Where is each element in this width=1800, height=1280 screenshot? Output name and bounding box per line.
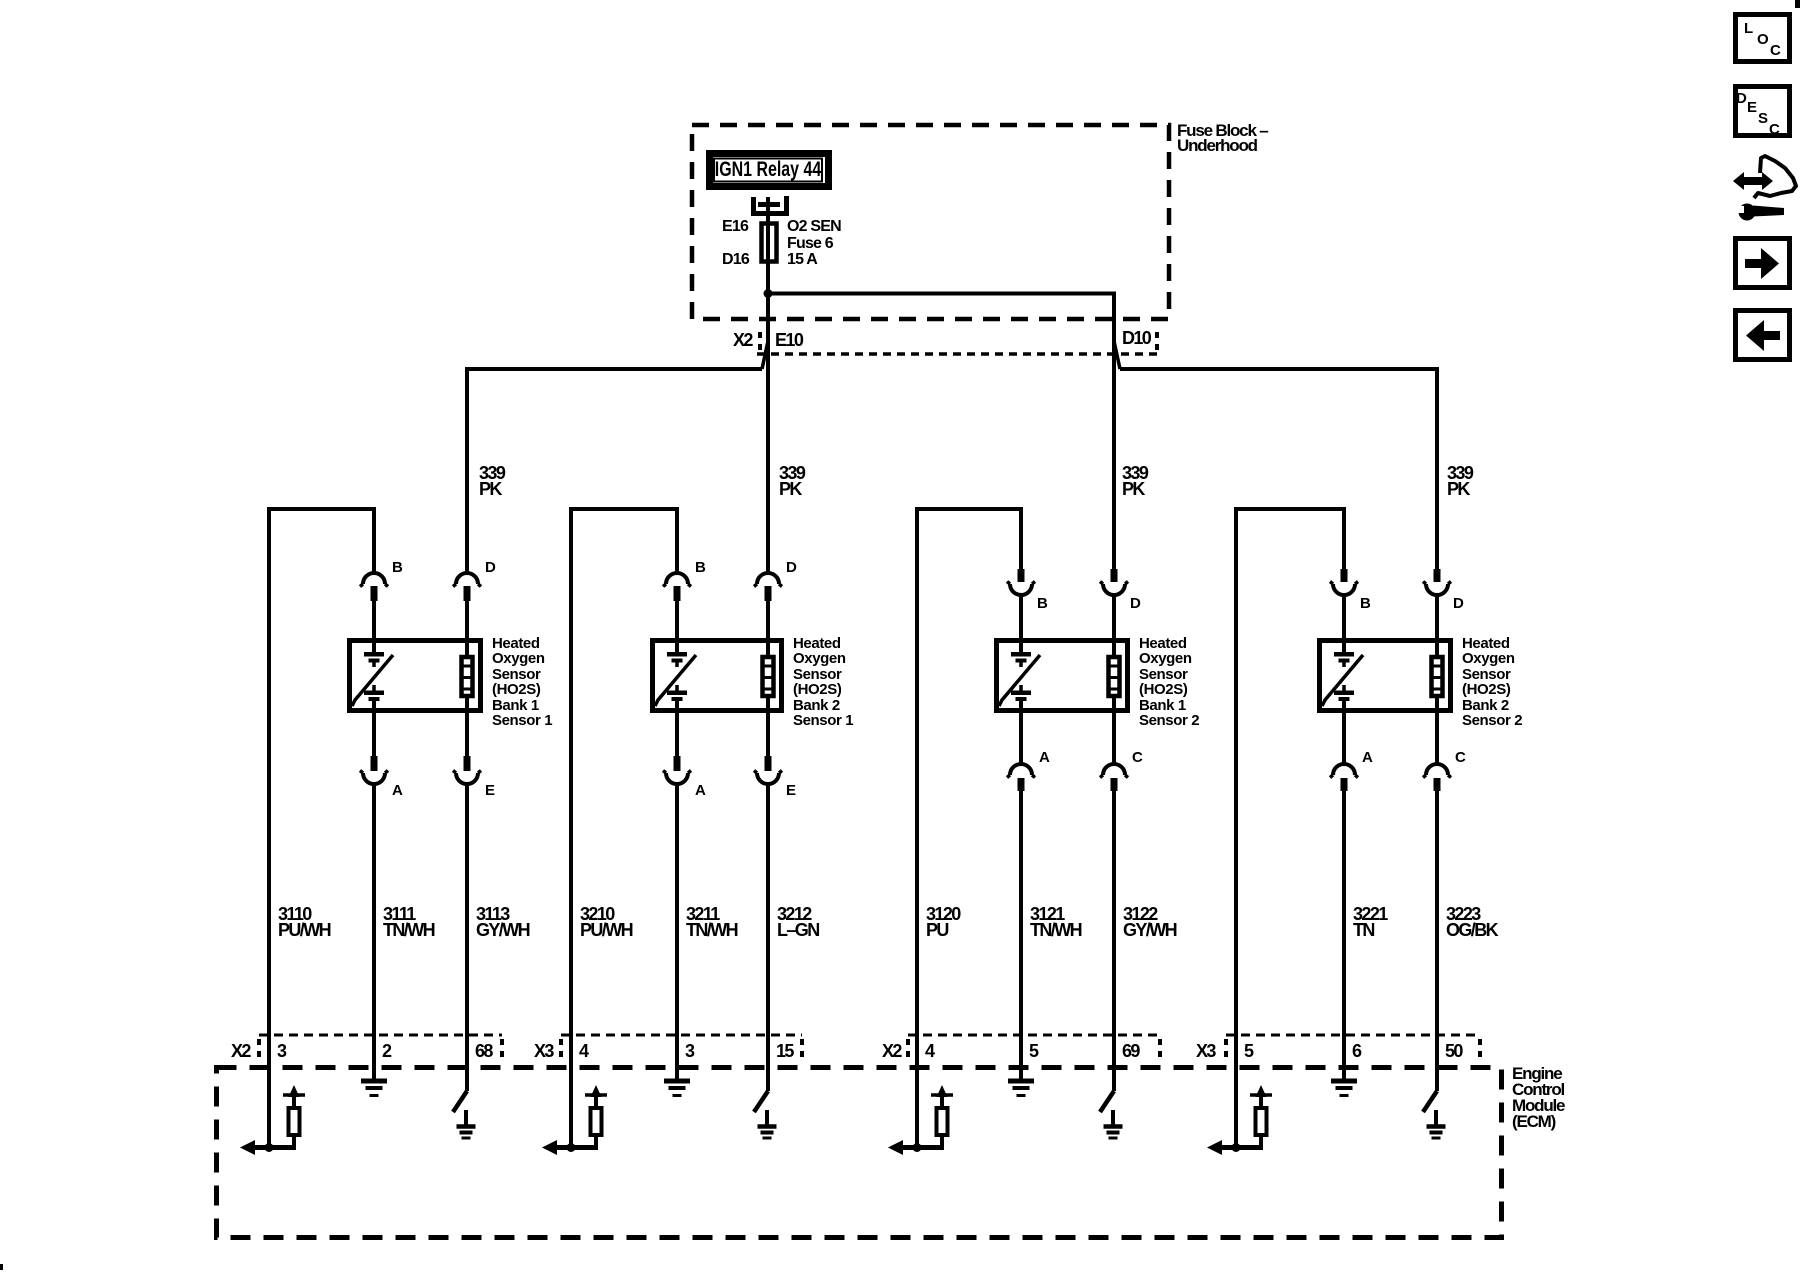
ECM connector separator left (group 1) (257, 1039, 261, 1057)
corner mark bottom-left (0, 1264, 3, 1270)
svg-text:B: B (1360, 595, 1371, 612)
wire 339 PK drop to HO2S B1S1 heater (465, 367, 469, 573)
ECM pull-up resistor (group 1) (289, 1108, 300, 1150)
ECM connector separator left (group 4) (1224, 1039, 1228, 1057)
wire label 3221 TN (1353, 904, 1388, 940)
connector pin B (sensor 4 top-left) (1330, 569, 1358, 595)
wire: ECM signal loop top (group 4) (1234, 507, 1346, 511)
ECM ground (heater driver, group 4) (1427, 1110, 1446, 1138)
svg-text:Fuse 6: Fuse 6 (787, 235, 834, 252)
ECM ground (signal low ref, group 3) (1008, 1081, 1034, 1096)
ECM connector label X3 (group 4) (1196, 1041, 1216, 1061)
svg-text:PK: PK (1447, 479, 1470, 499)
ECM heater driver switch (group 1) (453, 1091, 467, 1112)
wire label 339 PK (n4) (1447, 463, 1474, 499)
wire label 339 PK (n3) (1122, 463, 1149, 499)
wire label 339 PK (n2) (779, 463, 806, 499)
ECM connector label X2 (group 1) (231, 1041, 251, 1061)
svg-text:D16: D16 (722, 251, 750, 268)
icon box DESC (1736, 87, 1790, 139)
wire jog at E10 (762, 341, 768, 369)
wire: A to ECM ground (group 2) (675, 784, 679, 1079)
wire label 3210 PU/WH (580, 904, 633, 940)
wire label 3211 TN/WH (686, 904, 738, 940)
ECM pin number 50 (1445, 1041, 1463, 1061)
svg-text:Oxygen: Oxygen (1139, 650, 1192, 667)
ECM signal node junction (group 3) (913, 1143, 922, 1152)
wire: ECM signal loop top (group 2) (569, 507, 679, 511)
ECM pin number 5 (1244, 1041, 1254, 1061)
HO2S sensor box 3 (997, 641, 1128, 711)
svg-text:PK: PK (479, 479, 502, 499)
connector pin D (sensor 3 top-right) (1100, 569, 1128, 595)
ECM pull-up supply bar (group 1) (283, 1085, 305, 1108)
wire: A to ECM ground (group 3) (1019, 791, 1023, 1079)
wire: sensor box to connector A (1342, 713, 1346, 765)
pin letter E (786, 782, 796, 799)
wire: relay to fuse (766, 197, 770, 225)
svg-text:B: B (695, 559, 706, 576)
ECM ground (signal low ref, group 2) (664, 1081, 690, 1096)
wire: signal down to ECM pin (group 2) (569, 507, 573, 1148)
svg-text:D: D (485, 559, 496, 576)
svg-text:50: 50 (1445, 1041, 1463, 1061)
connector pin E (sensor 2 bottom-right) (754, 756, 782, 784)
connector pin B (sensor 3 top-left) (1007, 569, 1035, 595)
pin letter C (1132, 749, 1143, 766)
wire label 3121 TN/WH (1030, 904, 1082, 940)
wire: E to ECM driver (group 1) (465, 784, 469, 1091)
svg-text:(HO2S): (HO2S) (1139, 681, 1188, 698)
svg-text:Sensor 1: Sensor 1 (492, 712, 552, 729)
wire: through fuse to junction (766, 221, 770, 296)
ECM ground (heater driver, group 1) (457, 1110, 476, 1138)
HO2S sensor box 2 (653, 641, 782, 711)
svg-text:PK: PK (779, 479, 802, 499)
icon: wrench with arrows (1733, 156, 1796, 221)
ECM ground (signal low ref, group 1) (361, 1081, 387, 1096)
wire: ECM internal horizontal (group 2) (547, 1145, 596, 1150)
svg-text:A: A (1362, 749, 1373, 766)
ECM pull-up resistor (group 3) (937, 1108, 948, 1150)
svg-text:TN/WH: TN/WH (1030, 920, 1082, 940)
wire: drop to D10 connector (1112, 292, 1116, 574)
wire 339 PK drop to HO2S B2S2 heater (1435, 367, 1439, 569)
svg-text:D: D (1736, 90, 1747, 107)
svg-text:C: C (1770, 42, 1781, 59)
connector separator right (1155, 332, 1159, 350)
pin letter E (485, 782, 495, 799)
pin letter B (695, 559, 706, 576)
connector pin A (sensor 2 bottom-left) (663, 756, 691, 784)
wire: E to ECM driver (group 2) (766, 784, 770, 1091)
heater element (HO2S 3) (1109, 654, 1120, 713)
svg-text:PK: PK (1122, 479, 1145, 499)
ECM pin number 5 (1029, 1041, 1039, 1061)
wire jog at D10 (1114, 341, 1120, 369)
ECM ground (heater driver, group 2) (758, 1110, 777, 1138)
svg-text:A: A (392, 782, 403, 799)
svg-text:TN/WH: TN/WH (686, 920, 738, 940)
wire: sensor box to connector A (675, 713, 679, 757)
wire: ECM internal horizontal (group 4) (1212, 1145, 1261, 1150)
svg-text:B: B (392, 559, 403, 576)
wire: junction to D10 (horizontal) (766, 292, 1114, 296)
wire: sensor box to connector A (1019, 713, 1023, 765)
ECM signal node junction (group 4) (1232, 1143, 1241, 1152)
ECM pull-up supply bar (group 3) (931, 1085, 953, 1108)
label: Heated Oxygen Sensor (HO2S) Bank 2 Sensor 2 (1462, 635, 1522, 729)
wire: ECM signal loop top (group 3) (915, 507, 1023, 511)
ECM connector label X2 (group 3) (882, 1041, 902, 1061)
svg-text:Oxygen: Oxygen (793, 650, 846, 667)
pin label E10 (775, 330, 804, 350)
svg-text:D10: D10 (1122, 328, 1152, 348)
label: Fuse Block - Underhood (1177, 121, 1268, 155)
wire label 3122 GY/WH (1123, 904, 1177, 940)
sensor cell element (HO2S 4) (1322, 652, 1363, 713)
ECM pin number 2 (382, 1041, 392, 1061)
ECM pin number 3 (685, 1041, 695, 1061)
wire: sensor box to connector C (1112, 713, 1116, 765)
svg-text:69: 69 (1122, 1041, 1140, 1061)
pin label D10 (1122, 328, 1152, 348)
ECM internal arrow (group 3) (888, 1140, 903, 1155)
label: IGN1 Relay 44 (715, 157, 822, 181)
connector pin C (sensor 4 bottom-right) (1423, 764, 1451, 791)
svg-text:PU/WH: PU/WH (580, 920, 633, 940)
wire: D into sensor box (1112, 594, 1116, 658)
connector pin A (sensor 4 bottom-left) (1330, 764, 1358, 791)
ECM internal arrow (group 4) (1207, 1140, 1222, 1155)
ECM heater driver switch (group 4) (1423, 1091, 1437, 1112)
svg-text:68: 68 (475, 1041, 493, 1061)
svg-text:L–GN: L–GN (777, 920, 819, 940)
wire label 3120 PU (926, 904, 961, 940)
wire: signal down to ECM pin (group 4) (1234, 507, 1238, 1148)
wire: sensor box to connector A (372, 713, 376, 757)
heater element (HO2S 2) (763, 654, 774, 713)
svg-text:O2 SEN: O2 SEN (787, 218, 841, 235)
connector separator left (758, 332, 762, 350)
svg-text:E16: E16 (722, 218, 749, 235)
junction node (fuse output) (764, 289, 773, 298)
svg-text:D: D (1453, 595, 1464, 612)
corner mark top-right (1795, 0, 1800, 8)
pin letter D (1130, 595, 1141, 612)
pin letter D (485, 559, 496, 576)
ECM connector separator left (group 3) (906, 1039, 910, 1057)
ECM pull-up supply bar (group 4) (1250, 1085, 1272, 1108)
ECM signal node junction (group 2) (567, 1143, 576, 1152)
svg-text:TN/WH: TN/WH (383, 920, 435, 940)
svg-text:L: L (1744, 20, 1753, 37)
svg-text:X2: X2 (231, 1041, 251, 1061)
connector pin D (sensor 1 top-right) (453, 573, 481, 601)
svg-text:PU/WH: PU/WH (278, 920, 331, 940)
ECM pin number 6 (1352, 1041, 1362, 1061)
wire 339 PK branch right (horizontal) (1120, 367, 1437, 371)
ECM connector strip dotted line (group 2) (561, 1034, 802, 1037)
svg-text:E10: E10 (775, 330, 804, 350)
ECM pull-up resistor (group 2) (591, 1108, 602, 1150)
svg-text:X2: X2 (733, 330, 753, 350)
ECM connector separator right (group 4) (1478, 1039, 1482, 1057)
ECM pin number 69 (1122, 1041, 1140, 1061)
connector pin A (sensor 1 bottom-left) (360, 756, 388, 784)
svg-text:(HO2S): (HO2S) (1462, 681, 1511, 698)
wire: ECM internal horizontal (group 1) (245, 1145, 294, 1150)
svg-text:TN: TN (1353, 920, 1374, 940)
connector pin B (sensor 2 top-left) (663, 573, 691, 601)
svg-text:D: D (1130, 595, 1141, 612)
svg-text:Oxygen: Oxygen (1462, 650, 1515, 667)
svg-text:Sensor 2: Sensor 2 (1139, 712, 1199, 729)
wire: B into sensor box (1342, 594, 1346, 654)
wire label 3111 TN/WH (383, 904, 435, 940)
connector pin D (sensor 2 top-right) (754, 573, 782, 601)
ECM internal arrow (group 1) (240, 1140, 255, 1155)
ECM pin number 3 (277, 1041, 287, 1061)
ECM pin number 15 (776, 1041, 794, 1061)
svg-text:X2: X2 (882, 1041, 902, 1061)
connector pin D (sensor 4 top-right) (1423, 569, 1451, 595)
wire label 3113 GY/WH (476, 904, 530, 940)
wire: B into sensor box (372, 601, 376, 654)
Engine Control Module dashed outline (217, 1068, 1502, 1238)
sensor cell element (HO2S 2) (655, 652, 696, 713)
svg-text:A: A (1039, 749, 1050, 766)
wire: sensor box to connector E (465, 713, 469, 757)
svg-text:A: A (695, 782, 706, 799)
wire label 339 PK (n1) (479, 463, 506, 499)
wire: signal down to ECM pin (group 3) (915, 507, 919, 1148)
pin letter B (1360, 595, 1371, 612)
wire: D into sensor box (766, 601, 770, 658)
svg-text:E: E (786, 782, 796, 799)
wire: loop down to connector B (group 3) (1019, 509, 1023, 569)
ECM connector strip dotted line (group 1) (259, 1034, 502, 1037)
svg-text:C: C (1132, 749, 1143, 766)
HO2S sensor box 4 (1320, 641, 1451, 711)
svg-text:X3: X3 (1196, 1041, 1216, 1061)
wire label 3223 OG/BK (1446, 904, 1499, 940)
svg-text:(ECM): (ECM) (1512, 1112, 1556, 1131)
heater element (HO2S 1) (462, 654, 473, 713)
label: Heated Oxygen Sensor (HO2S) Bank 2 Sensor 1 (793, 635, 853, 729)
icon box arrow left (1736, 311, 1790, 360)
sensor cell element (HO2S 1) (352, 652, 393, 713)
fuse block underhood dashed outline (692, 125, 1169, 319)
svg-text:GY/WH: GY/WH (476, 920, 530, 940)
wire: D into sensor box (1435, 594, 1439, 658)
svg-text:PU: PU (926, 920, 948, 940)
pin letter D (1453, 595, 1464, 612)
connector pin C (sensor 3 bottom-right) (1100, 764, 1128, 791)
wire: signal down to ECM pin (group 1) (267, 507, 271, 1148)
wire: B into sensor box (1019, 594, 1023, 654)
connector pin B (sensor 1 top-left) (360, 573, 388, 601)
svg-text:S: S (1758, 110, 1768, 127)
wire: sensor box to connector E (766, 713, 770, 757)
wire: C to ECM driver (group 3) (1112, 791, 1116, 1091)
pin letter A (1362, 749, 1373, 766)
wire: loop down to connector B (group 4) (1342, 509, 1346, 569)
wire: C to ECM driver (group 4) (1435, 791, 1439, 1091)
svg-text:15 A: 15 A (787, 251, 818, 268)
svg-text:E: E (485, 782, 495, 799)
wire: ECM internal horizontal (group 3) (893, 1145, 942, 1150)
ECM pin number 4 (579, 1041, 589, 1061)
ECM connector separator right (group 2) (800, 1039, 804, 1057)
svg-text:GY/WH: GY/WH (1123, 920, 1177, 940)
ECM connector separator right (group 1) (500, 1039, 504, 1057)
ECM connector strip dotted line (group 4) (1226, 1034, 1480, 1037)
fuse F6 symbol (762, 224, 777, 262)
svg-text:15: 15 (776, 1041, 794, 1061)
wire label 3212 L–GN (777, 904, 819, 940)
pin letter A (1039, 749, 1050, 766)
label: Heated Oxygen Sensor (HO2S) Bank 1 Sensor 2 (1139, 635, 1199, 729)
ECM pull-up supply bar (group 2) (585, 1085, 607, 1108)
label: Engine Control Module (ECM) (1512, 1064, 1565, 1131)
svg-text:Underhood: Underhood (1177, 136, 1258, 155)
ECM pin number 4 (925, 1041, 935, 1061)
ECM connector label X3 (group 2) (534, 1041, 554, 1061)
svg-text:(HO2S): (HO2S) (793, 681, 842, 698)
pin letter A (392, 782, 403, 799)
label: Heated Oxygen Sensor (HO2S) Bank 1 Sensor 1 (492, 635, 552, 729)
svg-text:OG/BK: OG/BK (1446, 920, 1499, 940)
pin letter B (1037, 595, 1048, 612)
svg-text:B: B (1037, 595, 1048, 612)
wire: drop to E10 connector / down to HO2S B2S1 heater (766, 296, 770, 573)
wire: sensor box to connector C (1435, 713, 1439, 765)
wire 339 PK branch left (horizontal) (465, 367, 762, 371)
pin letter A (695, 782, 706, 799)
wire: D into sensor box (465, 601, 469, 658)
wire: A to ECM ground (group 1) (372, 784, 376, 1079)
connector pin A (sensor 3 bottom-left) (1007, 764, 1035, 791)
wire: B into sensor box (675, 601, 679, 654)
wire: loop down to connector B (group 1) (372, 509, 376, 573)
relay U1: IGN1 Relay 44 box (710, 154, 829, 187)
ECM ground (signal low ref, group 4) (1331, 1081, 1357, 1096)
pin letter B (392, 559, 403, 576)
connector pin E (sensor 1 bottom-right) (453, 756, 481, 784)
svg-text:O: O (1757, 31, 1769, 48)
ECM pin number 68 (475, 1041, 493, 1061)
connector label X2 (733, 330, 753, 350)
svg-text:E: E (1747, 99, 1757, 116)
svg-text:X3: X3 (534, 1041, 554, 1061)
svg-text:C: C (1455, 749, 1466, 766)
icon box LOC (1736, 15, 1790, 62)
ECM pull-up resistor (group 4) (1256, 1108, 1267, 1150)
ECM heater driver switch (group 2) (754, 1091, 768, 1112)
ECM heater driver switch (group 3) (1100, 1091, 1114, 1112)
svg-text:(HO2S): (HO2S) (492, 681, 541, 698)
ECM internal arrow (group 2) (542, 1140, 557, 1155)
sensor cell element (HO2S 3) (999, 652, 1040, 713)
svg-text:IGN1 Relay 44: IGN1 Relay 44 (715, 157, 822, 181)
wire label 3110 PU/WH (278, 904, 331, 940)
heater element (HO2S 4) (1432, 654, 1443, 713)
relay pin socket bracket (751, 196, 789, 216)
wire: A to ECM ground (group 4) (1342, 791, 1346, 1079)
HO2S sensor box 1 (350, 641, 481, 711)
ECM connector separator left (group 2) (559, 1039, 563, 1057)
icon box arrow right (1736, 239, 1790, 288)
svg-text:Sensor 1: Sensor 1 (793, 712, 853, 729)
svg-text:C: C (1769, 121, 1780, 138)
wire: ECM signal loop top (group 1) (267, 507, 376, 511)
svg-text:Oxygen: Oxygen (492, 650, 545, 667)
ECM ground (heater driver, group 3) (1104, 1110, 1123, 1138)
svg-text:D: D (786, 559, 797, 576)
ECM connector separator right (group 3) (1158, 1039, 1162, 1057)
ECM signal node junction (group 1) (265, 1143, 274, 1152)
connector strip dashed line (757, 352, 1160, 356)
pin letter C (1455, 749, 1466, 766)
pin label D16 (722, 251, 750, 268)
pin label E16 (722, 218, 749, 235)
svg-text:Sensor 2: Sensor 2 (1462, 712, 1522, 729)
fuse value label: O2 SEN Fuse 6 15 A (787, 218, 841, 268)
ECM connector strip dotted line (group 3) (908, 1034, 1160, 1037)
wire: loop down to connector B (group 2) (675, 509, 679, 573)
pin letter D (786, 559, 797, 576)
